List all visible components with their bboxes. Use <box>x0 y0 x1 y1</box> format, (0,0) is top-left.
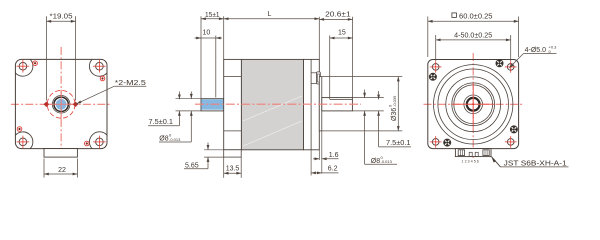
svg-text:1.6: 1.6 <box>329 152 339 159</box>
side view front pilot lines <box>224 76 242 78</box>
rear boss inner circle <box>454 85 493 124</box>
svg-text:-0.039: -0.039 <box>392 95 397 107</box>
front mounting hole bottom-left <box>19 138 27 146</box>
dim dia8 left vertical <box>190 92 192 99</box>
front bolt circle red dashed <box>47 90 75 118</box>
rear bell step circle <box>438 69 509 140</box>
dim 15±1 extension lines <box>200 16 202 99</box>
dim 6.2 <box>310 150 312 176</box>
leader 2-M2.5 <box>76 86 115 104</box>
dim 20.6 extension lines <box>318 17 320 60</box>
rear view centerline vertical <box>472 53 474 158</box>
front hub bearing ring thick <box>54 97 68 111</box>
svg-text:7.5±0.1: 7.5±0.1 <box>149 119 174 126</box>
front M2.5 hole left diamond <box>44 102 49 107</box>
dim 15±1 dimension line <box>201 18 224 20</box>
side view rear housing <box>304 59 320 149</box>
front view centerline vertical <box>60 47 62 154</box>
svg-text:123456: 123456 <box>462 160 481 164</box>
front hub crosshair overlay <box>47 103 76 105</box>
dim 22 extension lines <box>43 159 45 178</box>
front view corner ear top-right <box>89 59 107 76</box>
dim 19.05 extension lines <box>45 16 47 100</box>
dim 4-50 dimension <box>435 35 437 61</box>
dim dia8 rear vertical <box>364 90 366 98</box>
svg-text:5.65: 5.65 <box>185 162 199 169</box>
rear screw left-upper <box>429 73 436 80</box>
svg-text:Ø8: Ø8 <box>371 158 380 165</box>
dim 13.5 extension lines <box>223 157 225 178</box>
dim 15 rear extension line <box>329 36 331 100</box>
dim 19.05 dimension line <box>46 20 75 22</box>
rear mounting hole bottom-left <box>432 139 439 146</box>
svg-text:10: 10 <box>203 29 211 36</box>
front view centerline horizontal <box>11 103 111 105</box>
dim 15 rear dimension line <box>330 37 353 39</box>
rear boss outer circle <box>452 83 495 126</box>
side view front shaft flat blue <box>201 99 223 109</box>
front view square outline <box>15 59 107 148</box>
svg-text:15: 15 <box>338 29 346 36</box>
svg-text:4-Ø5.0: 4-Ø5.0 <box>525 47 547 54</box>
dim 22 dimension line <box>44 173 77 175</box>
front screw mark bottom-right <box>85 141 90 146</box>
dim 7.5 rear text <box>379 146 411 148</box>
dim 5.65 vertical <box>207 143 209 150</box>
dim dia8 rear text <box>365 163 397 165</box>
front view corner ear bottom-left <box>15 132 32 149</box>
side view front shaft outline <box>201 99 224 111</box>
rear mounting hole top-left <box>432 64 439 71</box>
label JST <box>491 157 496 163</box>
front screw mark bottom-left <box>17 127 22 132</box>
rear shaft edge extensions right <box>352 97 383 99</box>
front bottom tab (connector block) <box>44 149 77 158</box>
front mounting hole top-right <box>96 62 104 70</box>
rear view square outline <box>428 60 519 149</box>
side view centerline <box>195 103 361 105</box>
svg-text:JST S6B-XH-A-1: JST S6B-XH-A-1 <box>504 158 567 167</box>
svg-text:7.5±0.1: 7.5±0.1 <box>386 140 411 147</box>
side view rear shaft <box>322 98 353 111</box>
front mounting hole top-left <box>19 62 27 70</box>
dim 7.5 left text <box>148 125 179 127</box>
dim dia36 vertical <box>397 77 399 131</box>
svg-text:4-50.0±0.25: 4-50.0±0.25 <box>454 32 492 39</box>
side view rear pilot boss <box>319 77 322 131</box>
side view motor body gray <box>241 59 303 149</box>
side view connector on rear <box>311 72 317 74</box>
svg-text:-0.013: -0.013 <box>169 137 181 142</box>
svg-text:20.6±1: 20.6±1 <box>325 12 351 19</box>
rear screw top-right <box>496 60 503 67</box>
dim 7.5 left vertical <box>178 92 180 100</box>
rear outer bell circle <box>434 65 513 144</box>
svg-text:15±1: 15±1 <box>205 12 220 19</box>
dim 7.5 rear vertical <box>378 91 380 99</box>
rear pilot circle dia36 <box>446 77 501 132</box>
svg-text:Ø36: Ø36 <box>391 108 398 121</box>
svg-text:60.0±0.25: 60.0±0.25 <box>459 14 493 21</box>
side view front flange <box>224 59 242 149</box>
shaft edge extension lines left <box>176 98 202 100</box>
front mounting hole bottom-right <box>96 138 104 146</box>
rear connector block <box>455 149 491 157</box>
dim dia8 left text <box>159 141 191 143</box>
rear mounting hole top-right <box>507 64 514 71</box>
side view rear flange inner line <box>310 59 312 149</box>
tab extension lines left <box>204 149 224 151</box>
rear boss extensions right <box>322 76 403 78</box>
rear center red dot <box>472 103 474 105</box>
label 4-dia5 <box>524 53 557 55</box>
front view corner ear bottom-right <box>89 132 107 149</box>
dim 5.65 text <box>184 168 208 170</box>
side view bottom tab <box>224 150 242 157</box>
svg-text:6.2: 6.2 <box>328 166 338 173</box>
rear view centerline horizontal <box>424 103 523 105</box>
front hub boss thin circle <box>52 96 70 114</box>
svg-text:*2-M2.5: *2-M2.5 <box>115 80 146 87</box>
rear bearing boss circle <box>464 95 483 114</box>
dim 10 dimension line with outside arrows <box>195 37 223 39</box>
dim square60 dimension <box>427 17 429 58</box>
rear screw bottom-left <box>444 139 451 146</box>
front view corner ear top-left <box>15 59 33 76</box>
svg-text:*19.05: *19.05 <box>50 14 73 21</box>
front screw mark top-right <box>100 76 105 81</box>
dim 20.6±1 dimension line <box>319 18 352 20</box>
front M2.5 hole right diamond <box>73 102 78 107</box>
svg-text:Ø8: Ø8 <box>159 136 168 143</box>
svg-text:L: L <box>268 11 272 18</box>
rear screw right-lower <box>510 126 517 133</box>
rear hub crosshair overlay <box>452 103 495 105</box>
dim 10 extension line <box>215 36 217 98</box>
dim 13.5 dimension line <box>224 172 242 174</box>
rear shaft flat line <box>330 99 353 101</box>
svg-text:-0.013: -0.013 <box>381 159 393 164</box>
front screw mark top-left <box>33 61 38 66</box>
body sheen lines <box>243 96 302 121</box>
rear shaft hole ring <box>467 98 480 111</box>
rear mounting hole bottom-right <box>507 139 514 146</box>
svg-text:13.5: 13.5 <box>226 166 240 173</box>
dim 1.6 <box>318 150 320 160</box>
dim L dimension line <box>224 18 320 20</box>
front shaft blue circle <box>56 99 67 110</box>
svg-text:22: 22 <box>58 167 66 174</box>
